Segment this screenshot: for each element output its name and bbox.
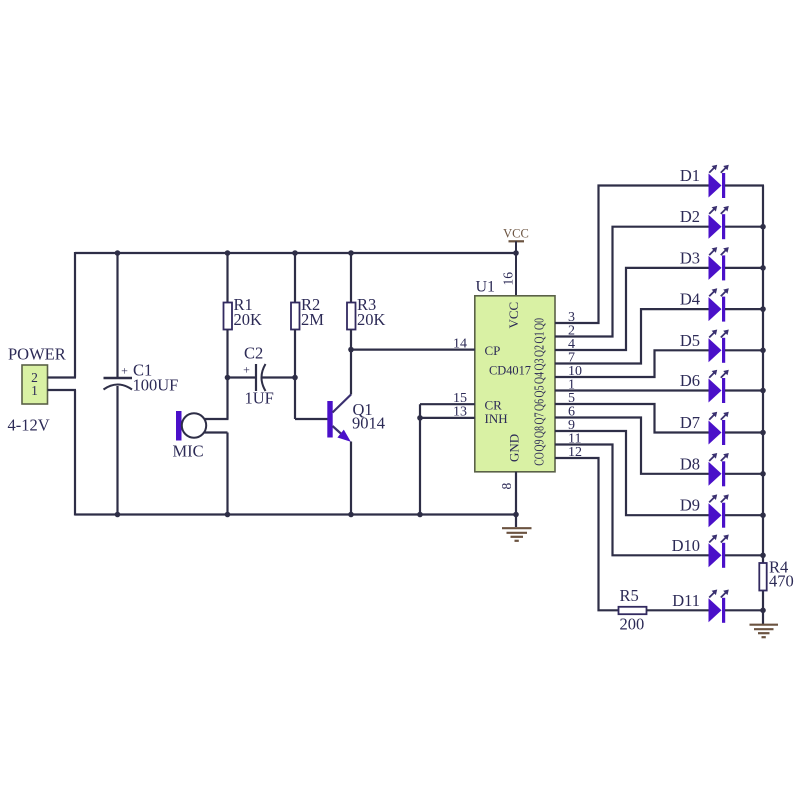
wire mic bottom lead (205, 431, 228, 433)
led D9 (709, 494, 729, 527)
junction right rail / D3 (760, 265, 766, 271)
led D2 (709, 206, 729, 239)
svg-text:8: 8 (499, 483, 514, 490)
wire bottom ground rail (75, 513, 516, 515)
wire D1 cathode to right rail (725, 184, 764, 186)
junction top rail / VCC (513, 250, 519, 256)
wire U1 pin 3 to D1 (555, 186, 709, 324)
wire U1 pin 5 to D7 (555, 404, 709, 433)
junction right rail / D9 (760, 512, 766, 518)
resistor R5 (619, 607, 647, 614)
junction right rail / D11 (760, 608, 766, 614)
wire U1 pin 11 to D10 (555, 445, 709, 556)
svg-text:MIC: MIC (173, 442, 204, 461)
wire right rail upper (762, 186, 764, 564)
svg-text:D10: D10 (672, 536, 700, 555)
svg-text:D7: D7 (680, 413, 700, 432)
wire top rail to C1 (116, 253, 118, 377)
led D1 (709, 165, 729, 198)
svg-text:Q0: Q0 (532, 318, 547, 330)
wire D5 cathode to right rail (725, 349, 764, 351)
power connector J1 (22, 365, 48, 404)
junction right rail / D6 (760, 388, 766, 394)
svg-text:16: 16 (501, 272, 516, 286)
led D11 (709, 590, 729, 623)
led D5 (709, 330, 729, 363)
wire VCC to U1 pin16 (515, 241, 517, 295)
wire top supply rail (75, 252, 516, 254)
wire left rail lower segment (74, 390, 76, 516)
svg-text:CO: CO (532, 452, 547, 465)
wire D2 cathode to right rail (725, 226, 764, 228)
led D3 (709, 247, 729, 280)
resistor R3 (347, 303, 356, 330)
svg-text:1: 1 (31, 383, 38, 398)
junction INH (417, 415, 423, 421)
led D10 (709, 535, 729, 568)
wire top rail to R1 (226, 253, 228, 303)
svg-text:Q1: Q1 (532, 331, 547, 343)
junction right rail / D4 (760, 306, 766, 312)
wire R1 to mic node (226, 330, 228, 420)
capacitor C1 (104, 364, 133, 390)
resistor R2 (291, 303, 300, 330)
svg-text:Q9: Q9 (532, 439, 547, 451)
svg-text:Q6: Q6 (532, 399, 547, 411)
junction bottom rail / CR column (417, 512, 423, 518)
wire D7 cathode to right rail (725, 431, 764, 433)
svg-text:D9: D9 (680, 496, 700, 515)
pin 14 wire CP (351, 349, 475, 351)
svg-text:+: + (243, 363, 250, 377)
svg-text:Q8: Q8 (532, 426, 547, 438)
wire mic top lead (205, 418, 229, 420)
ic U1 CD4017 (475, 296, 555, 472)
wire top rail to R3 (350, 253, 352, 303)
svg-text:20K: 20K (234, 310, 263, 329)
wire D11 cathode to right rail (725, 609, 764, 611)
svg-text:D8: D8 (680, 454, 700, 473)
svg-text:Q3: Q3 (532, 358, 547, 370)
svg-text:D2: D2 (680, 207, 700, 226)
ground symbol right (750, 625, 779, 638)
svg-text:Q5: Q5 (532, 385, 547, 397)
wire D8 cathode to right rail (725, 473, 764, 475)
junction R1 / C2 left (225, 375, 231, 381)
wire D9 cathode to right rail (725, 514, 764, 516)
svg-text:470: 470 (769, 572, 794, 591)
transistor Q1 (327, 395, 351, 442)
resistor R1 (224, 303, 233, 330)
svg-text:R5: R5 (620, 586, 639, 605)
junction right rail / D8 (760, 471, 766, 477)
svg-text:+: + (121, 364, 128, 378)
svg-text:Q7: Q7 (532, 412, 547, 424)
microphone MIC (176, 411, 206, 441)
junction right rail / D7 (760, 430, 766, 436)
junction bottom rail / C1 (115, 512, 121, 518)
wire left rail upper segment (74, 252, 76, 378)
svg-text:Q4: Q4 (532, 372, 547, 384)
ground symbol under U1 (502, 528, 532, 541)
svg-text:POWER: POWER (8, 345, 66, 364)
svg-text:13: 13 (453, 405, 467, 420)
pin 13 wire INH (420, 417, 475, 419)
svg-text:CD4017: CD4017 (489, 364, 531, 378)
svg-text:Q2: Q2 (532, 345, 547, 357)
junction R2 / C2 right (292, 375, 298, 381)
svg-text:D6: D6 (680, 371, 700, 390)
junction right rail / D2 (760, 224, 766, 230)
pin 15 wire CR (420, 403, 475, 405)
wire U1 pin 4 to D3 (555, 268, 709, 350)
wire U1 pin 10 to D5 (555, 350, 709, 377)
wire D6 cathode to right rail (725, 389, 764, 391)
svg-text:CP: CP (485, 343, 501, 358)
svg-text:1UF: 1UF (245, 389, 274, 408)
junction right rail / D10 (760, 553, 766, 559)
junction top rail / C1 (115, 250, 121, 256)
wire R5 to D11 (647, 609, 709, 611)
wire R3 to collector (350, 330, 352, 395)
pin 8 wire GND (515, 472, 517, 527)
svg-text:D5: D5 (680, 331, 700, 350)
wire R2 to base node (294, 330, 296, 420)
led D8 (709, 453, 729, 486)
wire C2 left lead (228, 376, 257, 378)
capacitor C2 (243, 363, 265, 392)
wire U1 pin 12 to D11 (555, 458, 619, 610)
svg-text:GND: GND (507, 434, 522, 462)
wire U1 pin 2 to D2 (555, 227, 709, 337)
wire D4 cathode to right rail (725, 308, 764, 310)
svg-text:U1: U1 (476, 279, 496, 296)
svg-text:INH: INH (485, 411, 508, 426)
svg-text:200: 200 (620, 615, 645, 634)
svg-text:4-12V: 4-12V (8, 416, 50, 435)
wire right rail lower (762, 591, 764, 625)
power symbol VCC (503, 227, 529, 242)
svg-text:D1: D1 (680, 166, 700, 185)
wire connector pin1 to left rail (48, 389, 77, 391)
wire U1 pin 9 to D9 (555, 431, 709, 515)
svg-text:2M: 2M (301, 310, 324, 329)
svg-text:14: 14 (453, 337, 467, 352)
wire CR/INH to bottom rail (419, 404, 421, 514)
junction bottom rail / mic (225, 512, 231, 518)
junction top rail / R1 (225, 250, 231, 256)
wire top rail to R2 (294, 253, 296, 303)
wire D10 cathode to right rail (725, 554, 764, 556)
svg-text:C2: C2 (244, 344, 263, 363)
junction right rail / D5 (760, 348, 766, 354)
wire mic to bottom rail (226, 433, 228, 515)
svg-text:D3: D3 (680, 248, 700, 267)
wire emitter to bottom rail (350, 442, 352, 515)
led D7 (709, 412, 729, 445)
junction bottom rail / pin8 (513, 512, 519, 518)
svg-text:D4: D4 (680, 290, 700, 309)
svg-text:D11: D11 (672, 591, 700, 610)
wire C2 right lead (262, 376, 295, 378)
svg-text:9014: 9014 (352, 414, 385, 433)
junction R3 / CP wire (348, 347, 354, 353)
wire U1 pin 1 to D6 (555, 389, 709, 391)
svg-text:VCC: VCC (503, 227, 529, 241)
wire U1 pin 6 to D8 (555, 418, 709, 474)
wire R2 to Q1 base (295, 418, 328, 420)
junction bottom rail / emitter (348, 512, 354, 518)
junction top rail / R3 (348, 250, 354, 256)
wire U1 pin 7 to D4 (555, 309, 709, 363)
resistor R4 (759, 563, 766, 591)
svg-text:20K: 20K (357, 310, 386, 329)
wire connector pin2 to left rail (48, 376, 77, 378)
wire C1 to bottom rail (116, 386, 118, 515)
wire D3 cathode to right rail (725, 267, 764, 269)
led D6 (709, 370, 729, 403)
led D4 (709, 288, 729, 321)
svg-text:100UF: 100UF (133, 376, 179, 395)
svg-text:VCC: VCC (506, 302, 521, 329)
junction top rail / R2 (292, 250, 298, 256)
